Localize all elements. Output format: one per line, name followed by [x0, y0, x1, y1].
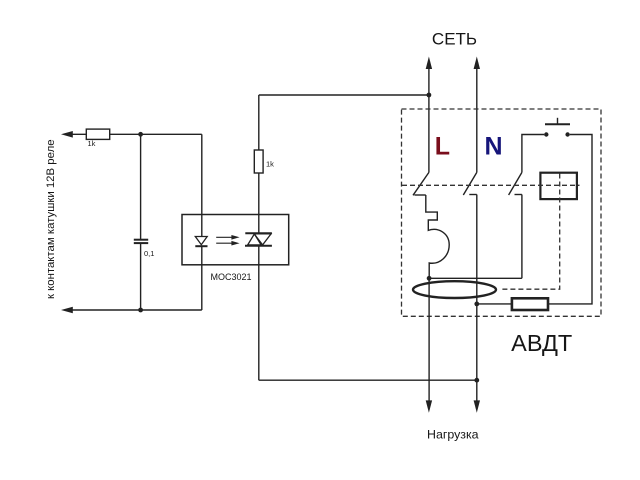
wire: test resistor to N junction: [477, 303, 512, 305]
optocoupler U1 box: [182, 215, 289, 265]
LED D1 triangle: [195, 237, 207, 245]
dashed box АВДТ: [402, 109, 602, 316]
arrowhead up L: [426, 57, 432, 70]
arrowhead left top: [61, 131, 73, 138]
breaker L blade: [413, 172, 429, 195]
test button actuator: [545, 118, 570, 125]
wire: triac terminal vertical bottom: [258, 246, 260, 380]
wire: test switch up to button: [522, 135, 544, 173]
LED cathode bar: [195, 245, 207, 247]
svg-text:0,1: 0,1: [144, 249, 154, 258]
capacitor C1: [134, 240, 148, 243]
breaker L release squiggle: [426, 195, 449, 278]
wire: top-left output to relay contacts: [72, 133, 202, 135]
svg-text:к контактам катушки 12В реле: к контактам катушки 12В реле: [45, 139, 57, 299]
breaker N fixed contact: [469, 194, 477, 196]
current transformer CT ellipse: [413, 281, 496, 298]
resistor R2 1k: [254, 150, 263, 173]
svg-text:1k: 1k: [266, 159, 274, 168]
test resistor R3: [512, 298, 548, 310]
test button SB contacts: [544, 132, 570, 136]
arrowhead down N: [474, 400, 480, 412]
wire: LED anode vertical: [201, 134, 203, 236]
node: N junction at triac output: [474, 378, 479, 383]
dashed mechanical coupling line: [402, 184, 580, 186]
wire: triac output to load N junction: [259, 379, 477, 381]
wire: N down to load: [476, 195, 478, 401]
wire: bottom-left output to relay contacts: [72, 309, 202, 311]
svg-text:N: N: [485, 132, 503, 160]
svg-text:СЕТЬ: СЕТЬ: [432, 29, 477, 48]
triac symbol: [245, 233, 272, 246]
wire: L down through CT to load: [428, 278, 430, 401]
breaker L fixed contact: [414, 194, 425, 196]
opto arrow 2: [216, 241, 239, 246]
arrowhead up N: [474, 57, 480, 70]
wire: N mains vertical: [476, 68, 478, 172]
node: junction bottom-left: [138, 308, 143, 313]
wire: L mains vertical: [428, 68, 430, 172]
node: junction top-left: [138, 132, 143, 137]
node: junction on L line at opto feed: [427, 93, 432, 98]
resistor R1 1k: [86, 129, 109, 139]
wire: LED cathode down: [201, 246, 203, 310]
svg-text:MOC3021: MOC3021: [211, 272, 252, 282]
test switch fixed contact: [515, 194, 522, 196]
svg-text:Нагрузка: Нагрузка: [427, 428, 479, 442]
wire: junction down to capacitor: [140, 134, 142, 239]
svg-text:L: L: [435, 132, 450, 160]
arrowhead left bottom: [61, 307, 73, 314]
svg-text:1k: 1k: [88, 139, 96, 148]
wire: opto feed from L: [259, 94, 429, 96]
wire: test branch tap from L: [429, 277, 522, 279]
test switch blade: [509, 172, 522, 195]
svg-text:АВДТ: АВДТ: [511, 330, 572, 356]
breaker N blade: [463, 172, 477, 195]
wire: triac terminal vertical top: [258, 95, 260, 233]
node: L junction above CT: [427, 276, 432, 281]
differential relay solenoid K1: [540, 173, 577, 199]
opto arrow 1: [216, 235, 239, 240]
node: N junction at test resistor: [474, 302, 479, 307]
wire: test branch vertical: [521, 195, 523, 279]
dashed linkage solenoid to CT: [500, 174, 559, 290]
wire: button right side down to test resistor: [548, 135, 592, 304]
wire: capacitor down to bottom junction: [140, 244, 142, 310]
arrowhead down L: [426, 400, 432, 412]
